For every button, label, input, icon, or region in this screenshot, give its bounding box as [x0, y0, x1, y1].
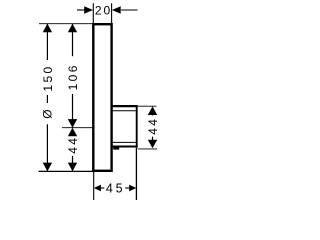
dimension 44 left down arrow	[68, 163, 77, 172]
dimension 44 left up arrow	[68, 128, 77, 137]
plate body (side view outline)	[93, 24, 111, 171]
dimension 44 right line upper segment	[152, 112, 154, 116]
handle protrusion bottom edge	[111, 145, 138, 147]
svg-text:106: 106	[66, 63, 80, 90]
dimension 45 right arrow	[129, 185, 136, 192]
extension line mid (106/44 boundary)	[62, 127, 93, 129]
dimension 106 line upper segment	[72, 24, 74, 57]
svg-text:150: 150	[41, 64, 55, 91]
dimension 45 right line stub	[125, 187, 129, 189]
handle protrusion top edge	[111, 105, 138, 107]
dimension 44 right extension line bottom	[138, 148, 158, 150]
dimension 44 right line lower segment	[152, 137, 154, 141]
svg-text:45: 45	[106, 181, 126, 195]
dimension 45 extension line right (handle edge continued)	[135, 148, 137, 201]
dimension Ø150 up arrow	[43, 24, 52, 33]
dimension Ø150 down arrow	[43, 163, 52, 172]
dimension 20 extension line right	[111, 3, 113, 24]
svg-text:20: 20	[95, 3, 112, 17]
dimension 45 left line stub	[101, 187, 105, 189]
dimension 44 right down arrow	[148, 140, 157, 149]
svg-text:44: 44	[66, 136, 80, 154]
dimension 44 right up arrow	[148, 106, 157, 115]
extension line bottom-left (baseline continuation of plate bottom)	[39, 170, 94, 172]
dimension 106 up arrow	[68, 24, 77, 33]
dimension Ø150 line lower segment	[46, 124, 48, 171]
dimension Ø150 line mid segment	[46, 95, 48, 103]
handle inner top line	[112, 110, 136, 112]
dimension 20 right arrow with tail	[121, 9, 138, 11]
dimension 106 down arrow	[68, 119, 77, 128]
dimension Ø150 line upper segment	[46, 24, 48, 60]
extension line top (for 150/106 dims)	[39, 23, 93, 25]
svg-text:44: 44	[146, 117, 160, 135]
dimension 44 left line lower segment	[72, 156, 74, 172]
handle bottom-left tick detail	[113, 147, 119, 150]
dimension 20 left arrow with tail	[77, 9, 86, 11]
handle protrusion right edge	[136, 105, 138, 147]
dimension 45 extension line left	[93, 172, 95, 200]
handle inner bottom line	[112, 141, 136, 143]
svg-text:Ø: Ø	[40, 109, 54, 118]
dimension 44 right extension line top	[138, 105, 157, 107]
dimension 20 extension line left	[92, 3, 94, 23]
dimension 45 left arrow	[94, 185, 101, 192]
dimension 106 line lower segment	[72, 94, 74, 128]
